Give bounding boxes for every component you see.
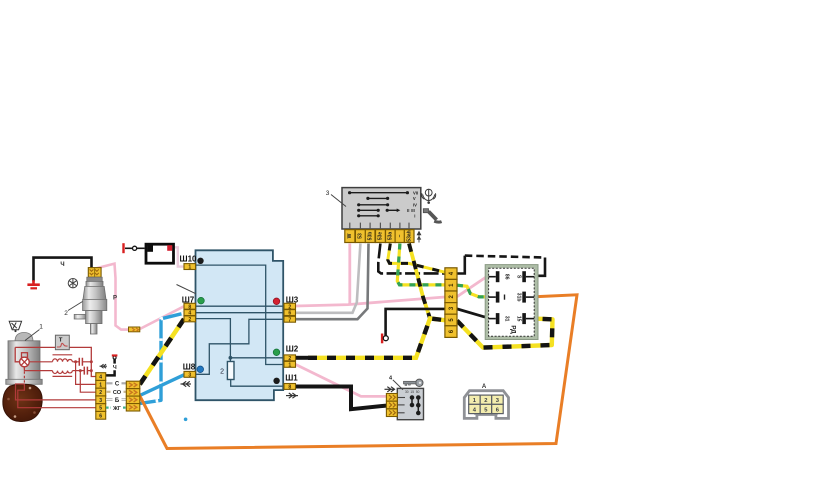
ground symbol (red bar) above motor pin4 wire <box>112 354 118 356</box>
relay pin 86 <box>489 271 510 282</box>
svg-text:Т: Т <box>59 338 63 344</box>
switch pin 53 <box>355 230 365 243</box>
column connector (6-pin, near relay) <box>445 268 457 338</box>
wire: yellow/black, switch 53ah diagonal to junction <box>409 244 430 319</box>
contact row V <box>366 197 389 200</box>
svg-text:II: II <box>407 208 409 213</box>
svg-text:Ш10: Ш10 <box>180 255 197 264</box>
svg-text:3: 3 <box>326 190 330 197</box>
ground symbol (red bar + contact circle) near column pin3 <box>381 334 383 344</box>
wire: black, Ш1-8 to ignition switch pin15 <box>296 387 387 410</box>
svg-text:2: 2 <box>99 390 102 396</box>
Ш2 connector pin 1 <box>284 361 296 368</box>
svg-text:Р: Р <box>113 296 117 302</box>
node: fuse junction dot <box>229 356 233 360</box>
svg-text:1: 1 <box>39 324 43 331</box>
svg-text:6: 6 <box>99 413 102 419</box>
svg-text:Ч: Ч <box>60 262 64 268</box>
arrow symbol « below Ш8 <box>181 381 192 386</box>
wire: block internal Ш7-8 to Ш3-2 <box>196 305 285 307</box>
wire: block internal Ш10-1 to Ш2-1 <box>196 265 285 364</box>
contact row VII <box>348 191 409 194</box>
node: Ш8 test point <box>197 366 204 373</box>
svg-text:1: 1 <box>188 265 191 271</box>
red dashed brush lead into housing <box>23 367 25 384</box>
contact row II-III left <box>357 209 380 212</box>
svg-text:VII: VII <box>413 190 418 195</box>
wire: dark gray, switch 53b to Ш3-7 <box>296 244 369 320</box>
svg-text:53: 53 <box>358 233 364 239</box>
svg-text:3: 3 <box>188 372 191 378</box>
wire: light-blue with white dashes, Ш7-4 to motor connector pin4 <box>140 313 184 403</box>
switch pin – <box>395 230 405 243</box>
red wires inside housing to pins 3,5 <box>16 384 96 400</box>
motor column connector (6-pin) <box>96 373 106 420</box>
ignition pin 15 <box>386 401 397 409</box>
svg-text:Б: Б <box>115 398 120 404</box>
svg-text:1: 1 <box>288 362 291 368</box>
intermittent arrow icon below switch <box>417 232 420 243</box>
washer pump (item 2) connector <box>88 268 101 278</box>
wiper arm icon (right of switch) <box>423 209 441 222</box>
svg-text:2: 2 <box>484 398 487 404</box>
node: Ш7 test point <box>198 297 205 304</box>
wiper motor (item 1) dome <box>15 333 33 342</box>
Ш7 connector pin 2 <box>184 316 196 323</box>
level switch (Ш10 source) box <box>146 244 174 263</box>
svg-text:4: 4 <box>99 375 102 381</box>
svg-text:53b: 53b <box>367 232 373 241</box>
wire: light-blue, Ш8-3 to motor connector pin3 <box>138 375 184 397</box>
wire: block internal Ш7-2 to fuse junction <box>196 319 231 358</box>
svg-text:С: С <box>115 382 120 388</box>
wiper motor flange <box>6 379 42 384</box>
svg-text:Ч: Ч <box>113 365 117 371</box>
Ш1 connector pin 8 <box>284 384 296 391</box>
contact row I <box>357 214 380 217</box>
wire: pink, Ш3-2 to column pin2 to relay 86 (with switch W branch) <box>296 297 445 306</box>
motor internal circuit (red): armature circle <box>20 353 30 367</box>
wire: black, motor column pin4 to ground <box>106 370 115 375</box>
arrow symbol near motor pin4 <box>100 364 108 368</box>
wire label ЖГ (teal dashes) <box>106 407 126 409</box>
svg-text:2: 2 <box>188 317 191 323</box>
wire: yellow/black, column pin5 around to relay 15 <box>457 319 553 348</box>
stray blue dot <box>184 418 188 422</box>
wire: yellow/green, switch pin6 to column pin1 to relay j <box>397 244 496 297</box>
connector A latch bar <box>474 412 498 415</box>
Ш10 connector pin 1 <box>184 264 196 271</box>
ground symbol (red bar) left of level switch <box>122 243 124 253</box>
ignition pin 50 <box>386 409 397 417</box>
Ш3 connector pin 2 <box>284 303 296 310</box>
relay pin S <box>516 271 535 282</box>
motor 4-pin harness connector <box>126 381 140 411</box>
svg-text:31b: 31b <box>516 293 522 302</box>
relay pin j <box>489 292 505 303</box>
wire label СО (tan) <box>106 391 126 393</box>
switch pin 53a <box>386 230 396 243</box>
ignition pin 30 <box>386 394 397 402</box>
svg-text:53e: 53e <box>378 232 384 241</box>
red supply rail and T-box link <box>15 347 96 376</box>
suppression choke row 1 <box>29 355 79 362</box>
svg-text:2: 2 <box>220 369 224 376</box>
connector A outline <box>464 391 508 419</box>
wiper switch (item 3) body <box>342 188 421 229</box>
svg-text:3: 3 <box>99 398 102 404</box>
relay РД box <box>485 265 538 340</box>
wire: block internal Ш7-4 to Ш3-6 <box>196 312 285 314</box>
connector A cells <box>469 395 504 414</box>
svg-text:53a: 53a <box>388 232 394 241</box>
red wires to motor connector pins 1,2 <box>76 362 96 385</box>
svg-text:IV: IV <box>413 202 417 207</box>
Ш2 connector pin 2 <box>284 355 296 362</box>
mounting block (монтажный блок) body <box>196 250 284 400</box>
svg-text:15: 15 <box>516 316 522 322</box>
contact row IV <box>357 203 389 206</box>
contact circle <box>133 246 137 250</box>
svg-text:7: 7 <box>288 317 291 323</box>
wiper icon (trapezoid) top left <box>9 321 21 329</box>
switch pin W <box>345 230 355 243</box>
leader line item 3 <box>331 195 346 207</box>
washer jet icon near pump <box>68 279 77 288</box>
switch pin 53ah <box>404 230 414 243</box>
wire: black+yellow/black, Ш2-2 to column pin5 <box>296 356 309 360</box>
wire: pink, Ш2-1 to ignition switch pin30 <box>296 364 387 396</box>
svg-text:31: 31 <box>504 316 510 322</box>
wire: thick yellow/black, motor connector pin1 to Ш7-2 <box>140 319 184 384</box>
svg-text:15: 15 <box>410 390 414 394</box>
svg-text:I: I <box>414 214 415 219</box>
svg-text:W: W <box>347 233 353 238</box>
wire: black, washer pump to ground <box>34 258 92 282</box>
Ш7 connector pin 4 <box>184 310 196 317</box>
leader line item 4 <box>393 380 403 390</box>
svg-text:V: V <box>413 196 416 201</box>
junction dots red <box>74 360 77 363</box>
wire label С (gray) <box>106 382 126 384</box>
fuse 2 (предохранитель) <box>220 358 284 386</box>
node: Ш1 test point <box>273 378 279 384</box>
svg-text:6: 6 <box>288 311 291 317</box>
ground symbol (red) at washer pump wire <box>27 280 39 289</box>
gear housing (brown) <box>3 384 42 421</box>
wire: black, column pin3 to relay 31 <box>457 309 496 319</box>
wire: black dashed, column pin4 over relay to S <box>457 256 465 274</box>
wire: block internal Ш3-7 to Ш8-3 staircase <box>196 319 285 374</box>
svg-text:30: 30 <box>405 390 409 394</box>
svg-text:III: III <box>411 208 415 213</box>
svg-text:Ш1: Ш1 <box>285 374 298 383</box>
svg-text:СО: СО <box>113 390 122 396</box>
Ш3 connector pin 6 <box>284 310 296 317</box>
svg-text:8: 8 <box>288 385 291 391</box>
svg-text:Ш7: Ш7 <box>182 296 195 305</box>
wire: light gray, switch 53 to Ш3-6 <box>296 244 361 313</box>
inline connector on pink wire <box>129 327 140 332</box>
svg-text:Ш8: Ш8 <box>183 362 196 371</box>
svg-text:2: 2 <box>64 310 68 317</box>
node: Ш2 test point <box>273 349 280 356</box>
svg-text:Ш3: Ш3 <box>286 296 299 305</box>
switch pin stubs <box>350 223 409 230</box>
node: Ш3 test point <box>273 298 280 305</box>
Ш8 connector pin 3 <box>184 371 196 378</box>
svg-text:50: 50 <box>416 390 420 394</box>
wire: level switch to ground contact <box>137 247 145 249</box>
capacitor 2 <box>84 367 91 375</box>
ignition switch (item 4) body <box>397 388 423 419</box>
suppression choke row 2 <box>24 367 84 377</box>
capacitor 1 <box>79 358 91 366</box>
svg-text:ЖГ: ЖГ <box>112 406 121 412</box>
Ш7 connector pin 8 <box>184 303 196 310</box>
relay pin 31 <box>489 313 510 324</box>
wire: block internal junction to Ш2-2 <box>230 357 284 359</box>
switch pin 53b <box>365 230 375 243</box>
contact row II-III right <box>386 209 401 213</box>
wire: pale pink, level-switch to Ш10-1 <box>172 247 185 266</box>
wire: yellow/black, switch 53a to column pin4 <box>388 244 445 273</box>
svg-text:1: 1 <box>99 382 102 388</box>
svg-text:Ш2: Ш2 <box>286 345 299 354</box>
wire: black, ground to column pin3 <box>386 309 445 336</box>
svg-text:РД: РД <box>510 325 517 334</box>
arrow symbol near ignition <box>385 387 395 392</box>
leader line to mounting block <box>177 285 197 294</box>
switch pin 53e <box>376 230 386 243</box>
relay pin 31b <box>516 292 535 303</box>
wire: black dashed, switch 53e to column pin4 <box>378 244 445 274</box>
node: Ш10 test point <box>197 258 203 264</box>
relay pin 15 <box>516 313 535 324</box>
wire: orange, motor connector pin2 around bottom to relay 31b <box>137 295 577 449</box>
svg-text:А: А <box>482 384 487 390</box>
svg-text:5: 5 <box>99 406 102 412</box>
washer jet icon (right of switch) <box>422 189 436 201</box>
wire label Б (white) <box>106 398 126 401</box>
ground contact circle <box>113 356 116 359</box>
key icon <box>404 379 423 386</box>
Ш3 connector pin 7 <box>284 316 296 323</box>
ignition contact bars <box>410 396 419 415</box>
svg-text:86: 86 <box>504 274 510 280</box>
svg-text:53ah: 53ah <box>406 230 412 241</box>
wire: pink, washer pump to inline connector to Ш7-8 <box>96 264 129 330</box>
thermal protector T-box <box>55 335 69 350</box>
svg-text:–: – <box>397 234 403 237</box>
arrow symbol » below Ш1 <box>286 393 298 398</box>
ignition pin stubs <box>397 398 405 413</box>
wiper motor cylinder <box>8 341 40 381</box>
washer pump body <box>74 277 107 334</box>
